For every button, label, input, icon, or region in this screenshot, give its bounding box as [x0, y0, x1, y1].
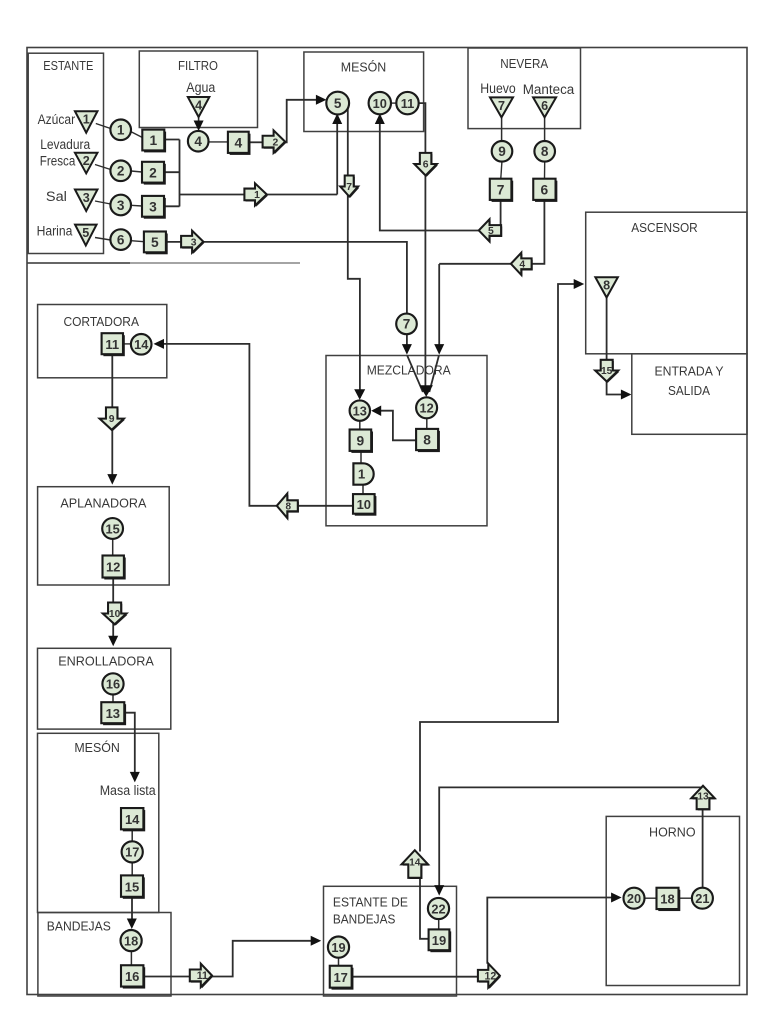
svg-text:14: 14 [409, 858, 421, 869]
wire square16 right through arrow11 [144, 941, 319, 977]
svg-text:1: 1 [254, 190, 260, 201]
wire triangle2-circle2 link [95, 165, 111, 170]
svg-text:2: 2 [272, 137, 278, 148]
arrowhead above masa lista [130, 772, 140, 783]
wire circle17 to square15 link [131, 863, 133, 875]
svg-text:4: 4 [519, 260, 525, 271]
wire square11-circle14 link [123, 343, 131, 345]
svg-text:1: 1 [149, 133, 157, 148]
inspection square 18 [657, 888, 681, 911]
wire triangle3-circle3 link [95, 201, 111, 204]
wire circle7 down [406, 334, 408, 351]
operation circle 16 [102, 673, 123, 694]
operation circle 11 [396, 92, 418, 114]
inspection square 9 [350, 430, 373, 453]
transport arrow 10 [103, 603, 128, 626]
transport arrow 3 [181, 231, 204, 254]
svg-text:4: 4 [195, 98, 202, 112]
inspection square 2 [142, 162, 166, 185]
inspection square 13 [101, 702, 126, 725]
room box ENROLLADORA [38, 648, 171, 729]
svg-text:MESÓN: MESÓN [341, 60, 387, 75]
inspection square 19 [429, 929, 452, 952]
wire circle4-square4 link [209, 141, 228, 143]
wire arrow4 left to manteca branch [439, 263, 512, 265]
wire square9 to delay1 link [360, 451, 362, 464]
transport arrow 13 [691, 786, 716, 811]
arrowhead into entrada y salida [621, 390, 632, 400]
wall divider dark part [28, 262, 131, 264]
operation circle 9 [492, 141, 513, 162]
operation circle 17 [122, 841, 143, 862]
svg-text:ENROLLADORA: ENROLLADORA [58, 654, 154, 669]
room box CORTADORA [38, 305, 167, 378]
operation circle 8 [534, 141, 555, 162]
wire triangle8 down to arrow15 [606, 298, 608, 362]
wire circle13 to square9 link [359, 421, 361, 429]
svg-text:Levadura: Levadura [40, 137, 90, 152]
operation circle 2 [110, 161, 131, 182]
room box ESTANTE DE BANDEJAS [324, 886, 457, 996]
svg-text:21: 21 [695, 891, 709, 906]
room box FILTRO [139, 51, 257, 128]
wire circle2-square2 link [131, 171, 142, 172]
svg-text:ENTRADA Y: ENTRADA Y [655, 364, 724, 379]
svg-text:2: 2 [83, 154, 90, 168]
svg-text:15: 15 [105, 521, 119, 536]
svg-text:15: 15 [125, 879, 139, 894]
wire square18-circle21 link [679, 897, 692, 899]
wall divider line [28, 262, 301, 264]
operation circle 14 [131, 334, 152, 355]
svg-text:Harina: Harina [37, 223, 73, 238]
operation circle 7 [396, 314, 417, 335]
wire circle5 down to circle13 [348, 107, 360, 398]
wire circle22 to square19 link [438, 919, 440, 929]
svg-text:1: 1 [358, 467, 365, 482]
svg-text:APLANADORA: APLANADORA [60, 496, 146, 511]
wire nevera triangle6 to circle8 [544, 117, 546, 141]
transport arrow 4 [511, 253, 533, 277]
transport arrow 14 [402, 850, 430, 879]
svg-text:13: 13 [353, 403, 367, 418]
svg-text:18: 18 [660, 892, 674, 907]
arrowhead into circle14 right [154, 339, 165, 349]
svg-text:17: 17 [125, 845, 139, 860]
svg-text:7: 7 [498, 99, 505, 113]
arrowhead into circle22 top [434, 885, 444, 896]
operation circle 18 [121, 930, 142, 951]
svg-text:3: 3 [149, 200, 157, 215]
operation circle 20 [624, 888, 645, 909]
arrowhead manteca line at mezcladora edge [434, 344, 444, 355]
wire circle8 to square6 link [544, 162, 546, 179]
room box MEZCLADORA [326, 356, 487, 526]
svg-text:Agua: Agua [186, 80, 216, 95]
wire squares1-3 bus [164, 140, 180, 207]
svg-text:Masa lista: Masa lista [100, 783, 157, 798]
inspection square 10 [353, 494, 376, 516]
operation circle 4 [188, 131, 209, 152]
transport arrow 6 [414, 153, 438, 177]
room box ENTRADA Y SALIDA [632, 354, 747, 435]
operation circle 22 [428, 898, 449, 919]
svg-text:12: 12 [106, 560, 120, 575]
svg-text:5: 5 [334, 96, 342, 111]
svg-text:7: 7 [403, 317, 411, 332]
svg-text:4: 4 [234, 136, 242, 151]
inspection square 17 [330, 966, 354, 990]
inspection square 16 [121, 965, 145, 988]
arrowhead into ascensor left [574, 279, 585, 289]
inspection square 1 [142, 130, 166, 153]
svg-text:6: 6 [117, 232, 125, 247]
svg-text:MEZCLADORA: MEZCLADORA [367, 363, 451, 378]
svg-text:4: 4 [194, 134, 202, 149]
inspection square 15 [121, 875, 145, 898]
room box HORNO [606, 816, 739, 985]
wire square7 down to arrow5 [500, 200, 502, 226]
svg-text:11: 11 [197, 970, 208, 982]
inspection square 5 [144, 232, 168, 255]
svg-text:12: 12 [484, 970, 496, 982]
transport arrow 5 [479, 219, 502, 243]
inspection square 11 [102, 333, 125, 356]
operation circle 21 [692, 888, 713, 909]
transport arrow 1 [244, 183, 267, 207]
storage triangle 1 Azucar [75, 111, 98, 133]
wire delay1 to square10 link [362, 485, 364, 496]
svg-text:11: 11 [105, 337, 119, 352]
wire agua triangle to circle4 [198, 117, 200, 124]
storage triangle 6 Manteca [533, 97, 556, 117]
svg-text:HORNO: HORNO [649, 824, 696, 839]
svg-text:Fresca: Fresca [40, 153, 76, 168]
svg-text:3: 3 [117, 198, 125, 213]
svg-text:Sal: Sal [46, 189, 67, 204]
wire circle12 to square8 link [426, 419, 428, 429]
svg-text:22: 22 [431, 901, 445, 916]
svg-text:NEVERA: NEVERA [500, 56, 548, 71]
svg-text:ESTANTE DE: ESTANTE DE [333, 894, 408, 909]
wire arrow13 left then down to circle22 [439, 787, 703, 892]
arrowhead into circle13 right [371, 405, 381, 416]
inspection square 7 [490, 179, 513, 202]
arrowhead circle7 line at mezcladora edge [402, 344, 412, 355]
room box APLANADORA [38, 487, 170, 585]
room box MESON top [304, 52, 424, 132]
svg-text:2: 2 [149, 165, 157, 180]
svg-text:Huevo: Huevo [480, 81, 516, 96]
svg-text:16: 16 [106, 677, 120, 692]
svg-text:17: 17 [333, 970, 347, 985]
storage triangle 2 Levadura [75, 153, 98, 174]
svg-text:Azúcar: Azúcar [38, 112, 76, 127]
wire square13 right then down to masa lista [124, 713, 134, 779]
svg-text:16: 16 [125, 969, 139, 984]
room box NEVERA [468, 48, 581, 129]
arrowhead into circle18 top [127, 919, 137, 930]
wire circle11 down through arrow6 to circle12 [418, 103, 426, 393]
svg-text:8: 8 [541, 144, 549, 159]
inspection square 4 [228, 132, 251, 155]
svg-text:9: 9 [109, 414, 115, 425]
svg-text:ASCENSOR: ASCENSOR [631, 220, 698, 235]
wire square19 left up through arrow14 [420, 878, 429, 939]
arrowhead into aplanadora top [107, 474, 117, 485]
operation circle 19 [328, 937, 349, 958]
svg-text:Manteca: Manteca [523, 82, 575, 97]
inspection square 3 [142, 196, 166, 219]
wire circle21 up to arrow13 [702, 800, 704, 888]
transport arrow 9 [100, 407, 125, 431]
arrowhead into circle5 left [316, 95, 327, 105]
transport arrow 8 [277, 494, 299, 520]
operation circle 5 [326, 92, 349, 115]
svg-text:6: 6 [423, 159, 429, 170]
transport arrow 7 [340, 176, 359, 198]
wire circle9 to square7 link [501, 162, 502, 179]
storage triangle 7 Huevo [490, 97, 513, 117]
svg-text:19: 19 [432, 933, 446, 948]
operation circle 13 [350, 400, 370, 420]
wire arrow2 up into circle5 [285, 100, 325, 143]
transport arrow 15 [595, 360, 619, 383]
svg-text:BANDEJAS: BANDEJAS [47, 919, 111, 934]
arrowhead into circle12 top [419, 385, 433, 397]
operation circle 1 [110, 120, 131, 141]
room box MESON lower [38, 733, 159, 912]
delay D-shape 1 [353, 463, 373, 484]
svg-text:7: 7 [497, 183, 505, 198]
svg-text:FILTRO: FILTRO [178, 58, 218, 73]
room box BANDEJAS [38, 913, 171, 997]
wire harina line to circle7 [166, 242, 407, 314]
svg-text:10: 10 [373, 96, 387, 111]
svg-text:9: 9 [357, 433, 365, 448]
wire triangle1-circle1 link [96, 124, 111, 129]
svg-text:8: 8 [423, 433, 431, 448]
wire square17 right through arrow12 [352, 976, 487, 978]
operation circle 15 [102, 518, 123, 539]
storage triangle 8 Ascensor [595, 277, 618, 297]
inspection square 14 [121, 808, 145, 831]
svg-text:1: 1 [83, 113, 90, 127]
arrowhead into circle4 top [194, 121, 204, 132]
svg-text:9: 9 [498, 144, 506, 159]
transport arrow 2 [263, 130, 287, 154]
svg-text:5: 5 [488, 226, 494, 237]
wire square14 to circle17 link [131, 830, 133, 842]
storage triangle 4 Agua [188, 97, 210, 117]
wire diagonal right into circle12 [429, 356, 439, 393]
svg-text:18: 18 [124, 933, 138, 948]
operation circle 6 [110, 229, 131, 250]
wire diagonal circle7 to circle12 [407, 356, 423, 393]
wire square6 down to arrow4 [532, 200, 544, 264]
arrowhead into enrolladora top [108, 636, 118, 647]
wire arrow14 up to ascensor [420, 284, 582, 852]
svg-text:13: 13 [697, 791, 709, 802]
storage triangle 3 Sal [75, 190, 98, 212]
svg-text:MESÓN: MESÓN [74, 740, 120, 755]
wire circle20-square18 link [645, 897, 657, 899]
svg-text:2: 2 [117, 164, 125, 179]
wire circle3-square3 link [131, 204, 142, 207]
svg-text:5: 5 [82, 226, 89, 240]
svg-text:12: 12 [419, 401, 433, 416]
transport arrow 11 [190, 964, 213, 989]
wire circle10-circle11 link [390, 102, 397, 104]
svg-text:11: 11 [401, 96, 415, 111]
svg-text:13: 13 [106, 706, 120, 721]
wire circle19 to square17 link [338, 958, 340, 966]
wire square11 down to aplanadora [111, 354, 113, 481]
svg-text:6: 6 [541, 183, 549, 198]
storage triangle 5 Harina [75, 225, 97, 246]
svg-text:BANDEJAS: BANDEJAS [333, 912, 396, 927]
arrowhead into estante de bandejas box [311, 936, 322, 946]
wire circle18 to square16 link [130, 951, 132, 965]
inspection square 8 [416, 429, 440, 452]
svg-text:6: 6 [541, 99, 548, 113]
svg-text:10: 10 [109, 609, 121, 620]
svg-text:3: 3 [83, 191, 90, 205]
arrowhead into circle10 bottom [375, 114, 385, 125]
svg-text:CORTADORA: CORTADORA [63, 314, 139, 329]
wire arrow15 down right to entrada [607, 381, 628, 395]
svg-text:7: 7 [346, 182, 352, 193]
wire manteca branch down [438, 264, 440, 351]
wire square8 to circle13 [373, 411, 416, 441]
arrowhead into circle5 bottom [332, 114, 342, 125]
wire square15 down to circle18 [131, 897, 133, 926]
svg-text:14: 14 [134, 337, 149, 352]
svg-text:8: 8 [286, 502, 292, 513]
svg-text:20: 20 [627, 891, 641, 906]
operation circle 3 [110, 195, 131, 216]
wire circle15-square12 link [112, 539, 114, 556]
svg-text:8: 8 [603, 279, 610, 293]
wire square12 down to enrolladora [112, 578, 114, 643]
wire arrow5 left then up to circle10 [380, 116, 480, 231]
svg-text:3: 3 [191, 237, 197, 248]
wire nevera triangle7 to circle9 [501, 117, 503, 141]
wire triangle5-circle6 link [95, 238, 111, 241]
wire square4 to arrow2 [249, 141, 263, 143]
room box ESTANTE [28, 53, 103, 253]
wire circle6-square5 link [131, 241, 144, 242]
transport arrow 12 [478, 964, 501, 989]
operation circle 12 [416, 397, 437, 418]
svg-text:15: 15 [601, 366, 613, 377]
svg-text:SALIDA: SALIDA [668, 383, 710, 398]
svg-text:5: 5 [151, 235, 159, 250]
inspection square 6 [533, 179, 557, 202]
svg-text:19: 19 [331, 940, 345, 955]
operation circle 10 [369, 92, 391, 114]
svg-text:10: 10 [357, 497, 371, 512]
inspection square 12 [103, 556, 126, 580]
wire circle16-square13 link [112, 695, 114, 702]
wire square10 left to cortadora [157, 344, 353, 506]
wire arrow12 up then right to circle20 [487, 898, 619, 964]
svg-text:ESTANTE: ESTANTE [43, 58, 93, 73]
wire circle1-square1 link [131, 132, 143, 138]
room box ASCENSOR [586, 212, 747, 354]
svg-text:1: 1 [117, 123, 125, 138]
arrowhead into circle13 top [354, 389, 365, 400]
wire bus to circle5 [180, 116, 338, 195]
arrowhead into circle20 left [611, 893, 622, 903]
svg-text:14: 14 [125, 812, 140, 827]
